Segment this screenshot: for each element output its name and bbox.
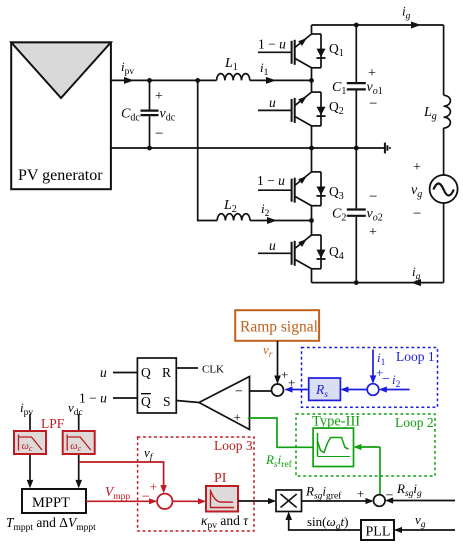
transistor Q4 [258,235,326,269]
svg-text:−: − [413,206,421,222]
wire 1-u input [113,397,137,399]
summing node loop1 [367,384,379,396]
svg-text:−: − [382,372,390,387]
svg-text:Q: Q [141,365,151,380]
svg-text:+: + [155,89,163,104]
flip-flop box [137,358,176,413]
wire Vmpp [86,500,156,502]
node mid rail bridge [309,146,314,151]
wire right rail mid [443,128,445,175]
svg-text:Tmppt and ΔVmppt: Tmppt and ΔVmppt [6,515,96,533]
svg-text:Loop 2: Loop 2 [395,415,434,430]
svg-text:Loop 1: Loop 1 [396,349,435,364]
wire node to PI [173,500,205,502]
svg-text:Q: Q [141,394,151,409]
svg-text:vg: vg [411,183,422,200]
wire green vertical to node [379,447,381,495]
wire branch down to L2 [198,80,218,220]
svg-text:L2: L2 [223,198,237,215]
svg-text:PV generator: PV generator [18,167,103,184]
svg-text:Ramp signal: Ramp signal [240,319,318,336]
arrow into MPPT 1 [27,480,34,489]
wire top rail [312,24,444,26]
inductor L2 [217,214,250,221]
svg-text:+: + [150,481,158,496]
transistor Q1 [258,34,326,68]
block Rs [309,378,341,400]
Loop 1 dashed box [302,348,438,408]
block LPF1 [14,431,46,454]
svg-text:i2: i2 [392,372,401,390]
svg-text:Rsgig: Rsgig [396,481,422,499]
wire i1 down [372,350,374,383]
wire vdc down [78,414,80,486]
wire right rail bottom [443,203,445,283]
svg-text:i2: i2 [261,201,270,219]
node Cdc bottom [147,146,152,151]
svg-text:R: R [162,365,171,380]
wire u input [113,372,137,374]
svg-text:Vmpp: Vmpp [105,484,130,502]
svg-text:CLK: CLK [202,364,224,376]
inductor L1 [217,74,250,81]
svg-text:ig: ig [412,264,421,282]
svg-text:S: S [163,394,171,409]
wire bottom rail [312,282,444,284]
svg-text:Cdc: Cdc [121,107,140,124]
transistor Q3 [258,172,326,206]
wire L2 to bridge [250,220,312,222]
svg-text:vo2: vo2 [367,207,383,224]
svg-text:−: − [235,385,243,400]
svg-text:+: + [413,160,421,175]
wire comparator plus input green [248,418,313,447]
block PI [206,486,238,512]
svg-text:vg: vg [415,512,426,530]
node branch to L2 [195,78,200,83]
svg-text:κpv and τ: κpv and τ [201,513,249,531]
svg-text:i1: i1 [260,60,269,78]
svg-text:+: + [369,225,377,240]
wire R to CLK [176,367,198,369]
current arrow ig bottom [411,279,421,286]
current arrow i2 [267,217,277,224]
svg-text:1 − u: 1 − u [79,391,107,406]
wire L1 to bridge [250,79,312,81]
svg-text:ipv: ipv [121,59,134,77]
svg-text:vo1: vo1 [367,80,383,97]
svg-text:PLL: PLL [366,525,391,540]
svg-text:Lg: Lg [423,105,437,122]
svg-text:−: − [369,189,377,205]
wire vg to PLL [396,529,456,531]
node C2 bottom [354,280,359,285]
comparator triangle [199,377,250,430]
svg-text:u: u [269,95,276,110]
svg-text:+: + [234,410,241,425]
node i1 [309,78,314,83]
capacitor C1 [347,25,366,148]
source vg [430,175,458,203]
svg-text:Q1: Q1 [329,41,344,59]
wire comparator minus input [250,390,272,392]
wire Rs to node [286,389,309,391]
arrow into MPPT 2 [75,480,82,489]
svg-text:−: − [142,489,150,505]
svg-text:+: + [357,486,364,501]
svg-text:Q2: Q2 [329,99,344,117]
wire PV bottom (mid rail) [111,147,385,149]
svg-text:MPPT: MPPT [32,495,70,511]
Loop 3 dashed box [138,437,254,531]
PV generator box [11,42,111,189]
wire loop1 node to Rs [342,389,367,391]
wire i2 input [381,389,410,391]
svg-text:u: u [269,238,276,253]
svg-text:vf: vf [144,445,154,463]
node Cdc top [147,78,152,83]
block PLL [361,520,394,540]
PV triangle [11,42,111,98]
svg-text:−: − [155,126,163,142]
svg-text:+: + [368,66,376,81]
node i2 [309,218,314,223]
wire ipv down [29,414,31,486]
capacitor C2 [347,148,366,283]
svg-text:1 − u: 1 − u [257,173,285,188]
svg-text:−: − [369,96,377,112]
wire vr down [277,341,279,382]
wire S to comparator [176,401,199,403]
wire type3 input [355,446,380,448]
node C mid [354,146,359,151]
svg-text:PI: PI [214,471,227,486]
block LPF2 [63,431,95,454]
wire Rsg ig input [387,500,455,502]
Loop 2 dashed box [296,414,435,476]
current arrow i_pv [124,77,134,84]
svg-text:Q4: Q4 [329,244,344,262]
svg-text:vdc: vdc [160,107,176,124]
svg-text:Rsgigref: Rsgigref [305,484,342,502]
svg-text:L1: L1 [224,56,238,73]
svg-text:LPF: LPF [41,416,65,431]
wire multiplier to node [302,500,373,502]
transistor Q2 [258,92,326,126]
inductor Lg [444,95,451,128]
ground symbol [385,143,390,154]
svg-text:C2: C2 [332,207,346,224]
wire PI to multiplier [238,500,275,502]
svg-text:1 − u: 1 − u [258,37,286,52]
current arrow i1 [266,77,276,84]
svg-text:ipv: ipv [20,400,33,418]
summing node grid [374,495,386,507]
svg-text:Loop 3: Loop 3 [214,438,253,453]
multiplier box [276,490,302,512]
wire PV top output [111,79,217,81]
svg-text:Type-III: Type-III [312,414,360,430]
summing node red [157,494,172,509]
svg-text:u: u [100,365,107,380]
svg-text:Q3: Q3 [329,184,344,202]
svg-text:C1: C1 [332,80,346,97]
svg-text:Rsiref: Rsiref [265,452,293,470]
block MPPT [22,489,86,513]
Ramp signal box [235,310,319,341]
summing node main [272,384,284,396]
wire bridge verticals [311,25,313,283]
svg-text:vr: vr [263,342,273,360]
node C1 top [354,23,359,28]
wire right rail top [443,25,445,95]
svg-text:ig: ig [402,4,411,22]
wire sin to multiplier [289,514,361,531]
wire vf red [79,462,164,491]
svg-text:−: − [386,489,394,504]
capacitor Cdc [141,80,159,148]
current arrow ig top [411,22,421,29]
